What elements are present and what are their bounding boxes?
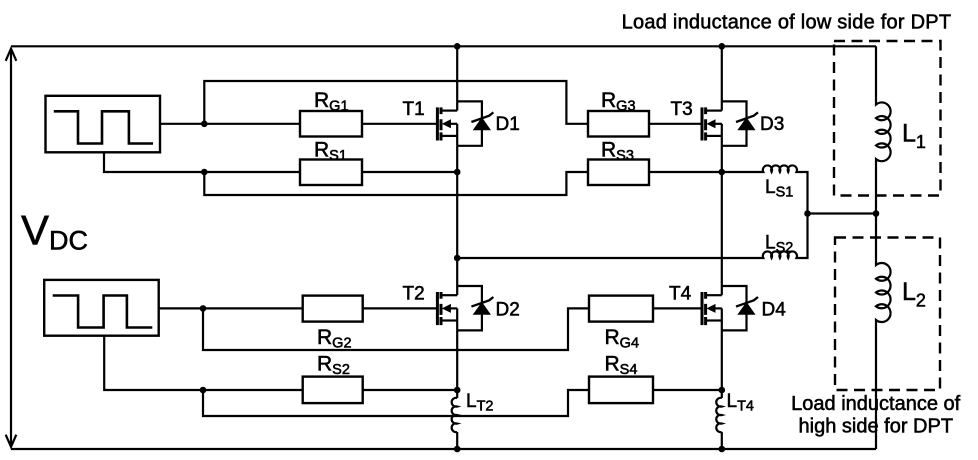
node RS2 left bus [454,387,461,394]
wire RG2 to T2 gate [363,307,436,309]
resistor RG1 [300,111,362,137]
wire right bus to LT4 [721,390,723,398]
resistor RG4 [589,296,653,322]
wire return link G2 to RS4 [203,390,589,416]
resistor RG3 [588,111,649,137]
inductor LS1 [722,165,808,213]
wire gate link G2 to RG4 [203,308,589,350]
wire right bus upper [721,46,723,101]
wire G2 return lead [104,336,303,390]
wire bottom DC bus [11,448,876,450]
Vdc arrowhead up [6,49,17,61]
node gen2 gate [200,305,207,312]
node RS3 right bus [719,169,726,176]
wire left bus middle [456,146,458,286]
wire RG4 to T4 gate [653,307,701,309]
svg-text:T4: T4 [669,284,692,305]
wire RG3 to T3 gate [649,123,701,125]
inductor L1 [876,46,891,213]
svg-text:high side for DPT: high side for DPT [799,416,954,438]
svg-text:Load inductance of: Load inductance of [791,393,960,415]
Vdc source arrow line [10,49,12,446]
node LS junction [804,210,811,217]
node RS1 left bus [454,169,461,176]
node load midpoint [873,210,880,217]
node RS4 right bus [719,387,726,394]
pulse generator G2 box [44,280,159,336]
node left bus bottom [454,446,461,453]
Vdc arrowhead down [6,435,17,447]
node gen2 return [200,387,207,394]
wire G1 output to RG1 [160,123,300,125]
svg-text:Load inductance of low side fo: Load inductance of low side for DPT [622,11,952,33]
wire G1 return lead [104,152,300,172]
node gen1 return [201,169,208,176]
wire RG1 to T1 gate [362,123,436,125]
wire left bus lower [456,330,458,390]
resistor RS2 [303,377,363,404]
wire RS4 to right bus [653,389,722,391]
resistor RS1 [300,160,362,186]
wire load midpoint [808,212,877,214]
wire return link G1 to RS3 [204,172,588,195]
node phase tap LS2 [454,255,461,262]
node right bus top [719,43,726,50]
transistor T4 [702,286,758,330]
wire left bus to LT2 [456,390,458,398]
wire top DC bus [11,45,876,47]
inductor LS2 [457,214,807,259]
wire RS2 to left bus [363,389,458,391]
wire gate link G1 to RG3 [204,81,588,124]
node left bus top [454,43,461,50]
node right bus bottom [719,446,726,453]
dashed box high-side load [835,238,940,391]
wire RS3 to right bus [649,171,722,173]
pulse generator G1 waveform [54,111,153,143]
wire G2 output to RG2 [159,307,303,309]
inductor LT4 [716,398,722,449]
inductor L2 [876,214,891,450]
transistor T1 [437,101,493,145]
svg-text:D2: D2 [496,299,520,320]
svg-text:D3: D3 [760,114,784,135]
transistor T3 [702,101,758,145]
wire RS1 to left bus [362,171,457,173]
pulse generator G1 box [46,96,161,153]
resistor RS4 [589,377,653,404]
pulse generator G2 waveform [53,296,153,328]
svg-text:T2: T2 [403,284,425,305]
node gen1 gate [201,121,208,128]
svg-text:D1: D1 [496,114,520,135]
resistor RS3 [588,160,649,186]
transistor T2 [437,286,493,330]
wire right bus lower [721,330,723,390]
wire right bus middle [721,146,723,286]
wire left bus upper [456,46,458,101]
resistor RG2 [303,296,363,322]
svg-text:T3: T3 [671,99,693,120]
svg-text:D4: D4 [762,299,787,320]
inductor LT2 [452,398,458,449]
svg-text:T1: T1 [403,99,425,120]
dashed box low-side load [834,41,941,196]
